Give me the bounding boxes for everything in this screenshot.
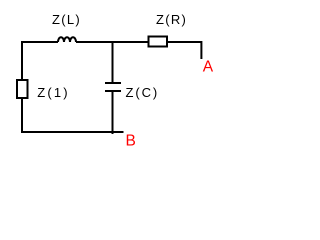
capacitor C bottom plate [105,90,121,92]
wire top-left segment (top rail to inductor, down left side to Z(1)) [22,42,58,79]
svg-text:Z(C): Z(C) [126,85,160,100]
wire capacitor top lead (node to top plate) [112,41,114,82]
impedance box Z(1) [17,80,28,98]
svg-text:Z(1): Z(1) [37,85,70,100]
svg-text:A: A [203,59,214,76]
capacitor C top plate [105,82,121,84]
wire top-right segment (resistor to terminal A) [167,42,201,59]
svg-text:B: B [126,133,136,150]
inductor Z(L) [58,37,76,42]
svg-text:Z(R): Z(R) [156,12,187,27]
wire top-middle segment (inductor to resistor, through node at capacitor) [76,41,149,43]
wire left-bottom segment (below Z(1), bottom rail to node B) [22,99,124,132]
resistor box Z(R) [149,37,168,47]
wire capacitor bottom lead (bottom plate to bottom rail node B) [112,92,114,134]
svg-text:Z(L): Z(L) [52,12,81,27]
